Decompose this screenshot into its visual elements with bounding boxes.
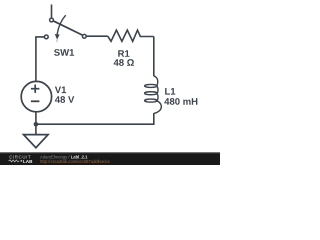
svg-text:LAB: LAB	[23, 159, 33, 164]
label 480 mH	[164, 98, 197, 105]
ground	[24, 135, 49, 148]
wire: right rail bottom and bottom wire	[36, 113, 154, 124]
label 48 ohm	[114, 59, 134, 66]
wire: right rail top	[153, 37, 155, 77]
junction node	[34, 122, 39, 127]
svg-text:http://circuitlab.com/cec267ud: http://circuitlab.com/cec267uddkce/ce	[40, 159, 110, 164]
watermark CircuitLab logo	[9, 155, 34, 164]
wire: switch right terminal to resistor	[87, 35, 108, 37]
wire: top stub above switch	[51, 5, 53, 18]
watermark bar	[0, 152, 220, 165]
resistor R1	[108, 30, 154, 41]
inductor L1	[145, 76, 162, 113]
voltage source V1	[21, 81, 51, 111]
switch SW1	[44, 15, 86, 42]
label V1	[55, 87, 66, 94]
label 48 V	[55, 96, 74, 103]
label SW1	[54, 49, 74, 56]
label R1	[118, 50, 129, 57]
wire: V1 bottom stub to ground	[35, 112, 37, 135]
wire: switch left terminal to left rail	[36, 37, 44, 82]
label L1	[165, 88, 175, 95]
